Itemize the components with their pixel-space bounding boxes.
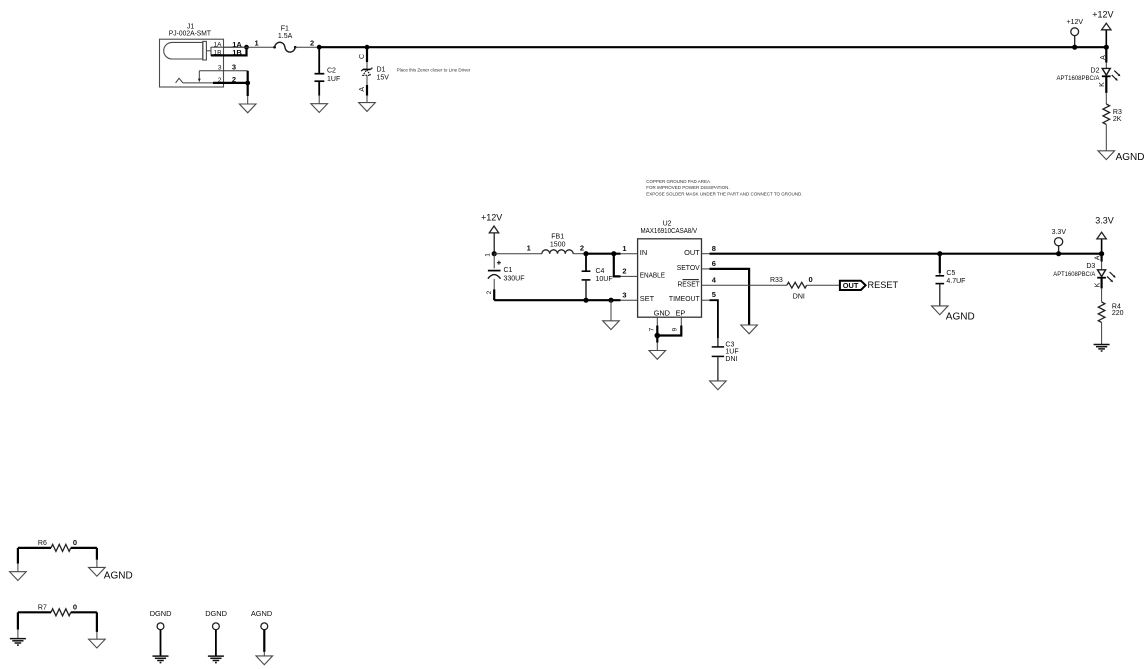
svg-text:AGND: AGND [946,312,975,323]
svg-text:2: 2 [218,77,222,84]
svg-text:Place this Zener closer to Lin: Place this Zener closer to Line Driver [397,68,471,73]
svg-text:1B: 1B [232,48,242,57]
svg-text:DGND: DGND [205,609,227,618]
svg-text:C5: C5 [946,270,955,277]
svg-text:IN: IN [640,248,647,257]
svg-text:DNI: DNI [725,356,737,363]
svg-text:A: A [359,87,366,92]
svg-text:OUT: OUT [843,281,859,290]
svg-text:R7: R7 [38,604,47,611]
svg-text:A: A [1100,55,1107,60]
svg-text:3: 3 [622,290,626,299]
svg-text:SETOV: SETOV [677,263,700,272]
svg-text:RESET: RESET [678,280,701,289]
svg-text:R33: R33 [770,277,783,284]
svg-text:2: 2 [580,244,584,253]
svg-text:AGND: AGND [251,609,272,618]
svg-text:+12V: +12V [1067,19,1084,26]
svg-text:C: C [359,54,366,59]
svg-text:APT1608PBC/A: APT1608PBC/A [1057,75,1101,82]
svg-text:AGND: AGND [104,571,133,582]
svg-text:2K: 2K [1113,116,1122,123]
svg-text:2: 2 [622,267,626,276]
svg-text:EXPOSE SOLDER MASK UNDER THE P: EXPOSE SOLDER MASK UNDER THE PART AND CO… [646,191,802,196]
svg-text:1.5A: 1.5A [278,33,293,40]
svg-text:1UF: 1UF [725,349,738,356]
svg-text:FB1: FB1 [551,234,564,241]
svg-text:4: 4 [712,276,717,285]
svg-text:0: 0 [73,538,77,547]
svg-text:0: 0 [809,275,813,284]
svg-text:+12V: +12V [481,212,502,222]
svg-text:EP: EP [675,308,685,317]
svg-text:C4: C4 [596,268,605,275]
svg-text:2: 2 [310,39,314,48]
svg-text:K: K [1094,282,1101,287]
svg-text:U2: U2 [663,220,672,227]
svg-text:K: K [1099,82,1106,87]
svg-text:D1: D1 [377,67,386,74]
svg-text:1: 1 [527,244,531,253]
svg-text:8: 8 [712,244,716,253]
svg-text:330UF: 330UF [504,276,525,283]
svg-text:COPPER GROUND PAD AREA: COPPER GROUND PAD AREA [646,179,710,184]
svg-text:4.7UF: 4.7UF [946,278,965,285]
svg-text:2: 2 [232,75,236,84]
svg-text:1: 1 [484,253,491,257]
svg-text:+12V: +12V [1092,10,1113,20]
svg-text:7: 7 [648,327,655,331]
svg-text:APT1608PBC/A: APT1608PBC/A [1053,271,1096,278]
svg-text:TIMEOUT: TIMEOUT [669,294,700,303]
svg-text:220: 220 [1112,310,1124,317]
svg-text:1UF: 1UF [327,76,340,83]
svg-text:3: 3 [232,63,236,72]
svg-text:A: A [1094,255,1101,260]
svg-text:3.3V: 3.3V [1095,216,1114,226]
svg-text:2: 2 [486,290,493,294]
svg-text:1: 1 [255,38,259,47]
svg-text:C3: C3 [725,341,734,348]
svg-text:1A: 1A [214,41,223,48]
svg-text:FOR IMPROVED POWER DISSIPATION: FOR IMPROVED POWER DISSIPATION. [646,185,729,190]
svg-text:1B: 1B [214,49,222,56]
svg-text:3.3V: 3.3V [1052,229,1067,236]
svg-text:1: 1 [622,244,626,253]
svg-text:10UF: 10UF [596,276,613,283]
svg-text:F1: F1 [281,26,289,33]
svg-text:3: 3 [218,64,222,71]
svg-text:D3: D3 [1086,263,1095,270]
svg-text:5: 5 [712,290,716,299]
svg-text:AGND: AGND [1116,152,1145,163]
svg-text:SET: SET [640,294,655,303]
svg-text:6: 6 [712,259,716,268]
svg-text:GND: GND [654,308,670,317]
svg-text:C2: C2 [327,68,336,75]
svg-text:R6: R6 [38,540,47,547]
svg-text:MAX16910CASA8/V: MAX16910CASA8/V [641,228,698,235]
svg-text:J1: J1 [187,23,195,30]
svg-text:1500: 1500 [550,242,566,249]
svg-text:DNI: DNI [793,293,805,300]
svg-text:D2: D2 [1091,68,1100,75]
svg-text:RESET: RESET [868,280,899,290]
svg-text:ENABLE: ENABLE [640,271,665,280]
svg-text:OUT: OUT [684,248,700,257]
svg-text:C1: C1 [504,267,513,274]
svg-text:PJ-002A-SMT: PJ-002A-SMT [169,31,212,38]
svg-text:15V: 15V [377,74,390,81]
svg-text:9: 9 [672,327,679,331]
svg-text:0: 0 [73,602,77,611]
svg-text:DGND: DGND [150,609,172,618]
